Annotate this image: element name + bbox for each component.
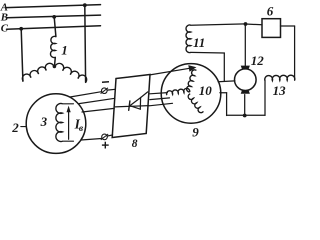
- node loop: [243, 114, 247, 118]
- wire from C: [21, 29, 23, 81]
- rectifier box 8: [112, 75, 150, 138]
- node on C: [19, 27, 23, 31]
- star point node: [53, 65, 57, 69]
- wire minus to box: [107, 88, 115, 91]
- current arrow Iv: [68, 110, 70, 140]
- svg-text:2: 2: [11, 120, 19, 135]
- winding 10 left coil: [167, 88, 190, 95]
- bus line A: [7, 5, 101, 8]
- svg-text:10: 10: [199, 83, 213, 98]
- winding 10 lower coil: [188, 94, 203, 113]
- block 6: [262, 19, 281, 38]
- wire out3: [149, 103, 172, 106]
- wire from A: [84, 5, 87, 82]
- brush top: [241, 66, 250, 70]
- bus line C: [7, 26, 101, 30]
- wire rim to loop: [220, 92, 227, 94]
- svg-text:3: 3: [40, 114, 48, 129]
- field coil 3: [56, 104, 63, 142]
- wire armature bottom: [244, 95, 246, 116]
- wire minus line: [70, 92, 101, 97]
- terminal minus: [102, 88, 108, 94]
- wire to box 6: [246, 23, 263, 26]
- terminal plus: [102, 134, 108, 140]
- wire down to T: [223, 53, 225, 81]
- plus sign: [102, 144, 109, 146]
- wire armature top: [244, 24, 246, 66]
- armature 12 circle: [235, 69, 257, 91]
- brush bottom: [241, 90, 250, 94]
- svg-text:6: 6: [267, 3, 274, 18]
- node on A: [83, 3, 87, 7]
- svg-text:13: 13: [273, 83, 287, 98]
- thyristor U1: [115, 106, 149, 107]
- wire from B: [54, 17, 56, 37]
- label 2 dash: [21, 126, 26, 128]
- svg-text:8: 8: [132, 138, 138, 150]
- svg-text:1: 1: [61, 43, 67, 58]
- wire out1: [150, 93, 168, 94]
- wire coil11 top: [191, 24, 246, 25]
- wire loop right up: [264, 81, 266, 115]
- smoothing coil 11: [186, 25, 191, 53]
- wire brush T: [218, 80, 235, 83]
- machine 9 circle: [161, 64, 221, 124]
- wire coil11 bottom: [191, 51, 225, 54]
- field coil 13: [265, 75, 295, 81]
- wire box6 right: [281, 25, 295, 27]
- coil 3 bottom lead: [63, 140, 74, 142]
- wire mid1: [79, 98, 115, 103]
- svg-text:C: C: [1, 23, 9, 35]
- machine 2 circle: [26, 94, 86, 154]
- wire coil1 to star: [54, 57, 57, 65]
- node on B: [52, 15, 56, 19]
- bus line B: [7, 15, 101, 18]
- wire mid2: [82, 108, 114, 112]
- reactor coil 1: [50, 36, 55, 57]
- wire loop left: [226, 93, 228, 116]
- svg-text:11: 11: [193, 35, 205, 50]
- star right coil: [55, 63, 87, 82]
- wire out2: [150, 98, 170, 100]
- winding 10 upper coil: [187, 70, 197, 92]
- wire plus line: [81, 139, 102, 141]
- brush arrow to winding 10: [150, 68, 193, 75]
- svg-text:12: 12: [251, 53, 264, 68]
- coil 3 top lead: [63, 103, 74, 105]
- svg-text:9: 9: [192, 124, 199, 139]
- svg-text:в: в: [79, 124, 84, 134]
- wire down right: [294, 26, 296, 80]
- wire plus to box: [107, 135, 112, 136]
- wire loop bottom: [227, 114, 265, 116]
- minus sign: [102, 81, 109, 84]
- node top: [244, 22, 248, 26]
- star left coil: [22, 63, 54, 81]
